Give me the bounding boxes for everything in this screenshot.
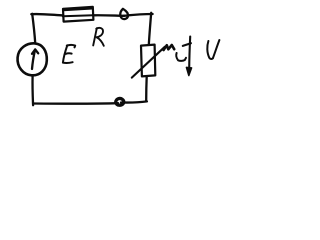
wire bottom right (corner to bottom node) — [121, 101, 147, 102]
wire top node to top-right corner — [124, 14, 153, 16]
node A (top terminal circle) — [120, 9, 128, 19]
wire left vertical lower (corner to source bottom) — [31, 76, 34, 105]
rheostat arrow — [132, 47, 165, 78]
wire below rheostat — [145, 77, 148, 101]
voltage arrow U — [189, 37, 190, 69]
source arrow — [32, 50, 35, 69]
label U — [207, 40, 219, 59]
rheostat r body — [141, 45, 155, 77]
label R — [93, 28, 104, 46]
wire right vertical upper — [149, 13, 151, 45]
node B (bottom terminal circle) — [116, 98, 124, 105]
wire bottom left (node to corner) — [33, 102, 118, 105]
wire resistor to top node — [93, 14, 124, 17]
resistor R1 body — [63, 7, 93, 22]
label r — [176, 53, 186, 61]
wire top-left vertical (corner to source top) — [32, 14, 35, 43]
voltage source E circle — [18, 43, 47, 75]
wire top horizontal (corner to resistor) — [31, 14, 63, 15]
label E — [63, 45, 75, 63]
